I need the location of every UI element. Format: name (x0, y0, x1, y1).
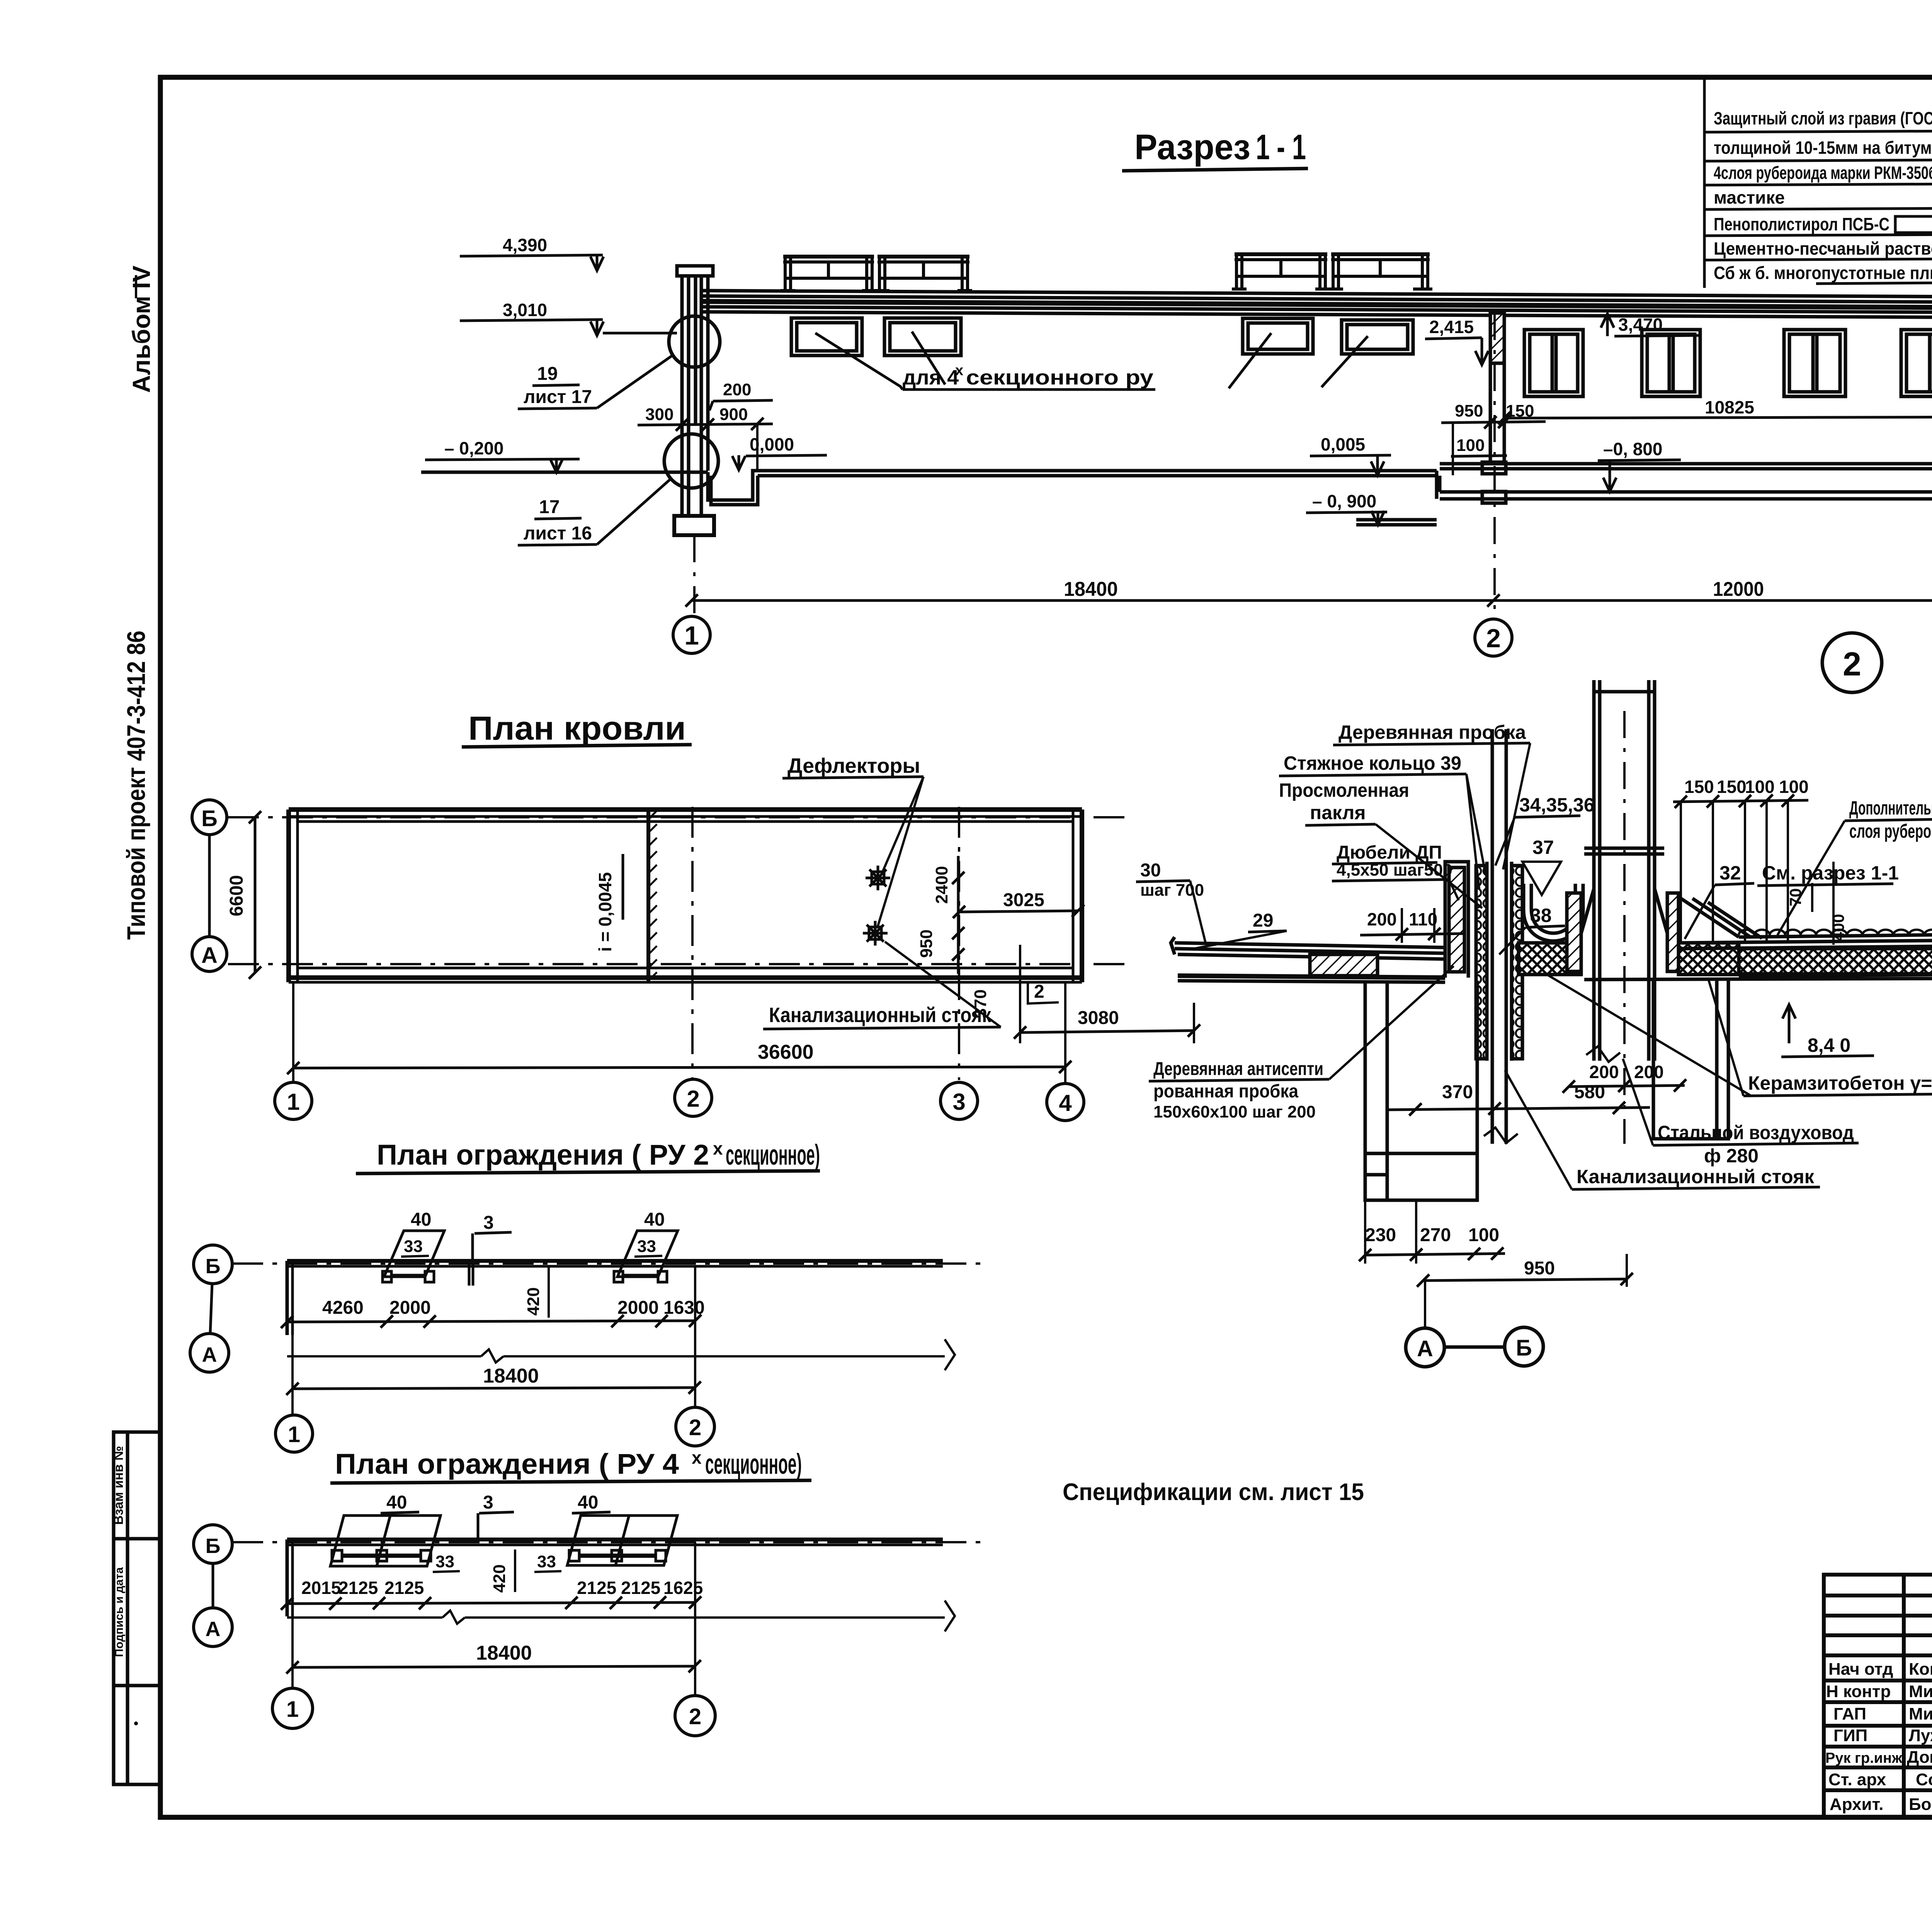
svg-text:8,4 0: 8,4 0 (1808, 1034, 1850, 1056)
svg-text:30: 30 (1140, 860, 1161, 881)
svg-text:Деревянная пробка: Деревянная пробка (1338, 721, 1526, 743)
svg-text:2: 2 (1843, 646, 1861, 683)
svg-text:х: х (692, 1448, 702, 1468)
svg-text:А: А (202, 1343, 217, 1366)
tall window 2 (1642, 330, 1700, 396)
svg-text:толщиной 10-15мм на битумной м: толщиной 10-15мм на битумной мастике (1714, 138, 1932, 158)
deflector stand 1 (781, 257, 877, 291)
right roof slab (1739, 934, 1932, 937)
pipe/duct break marks (1484, 1128, 1518, 1143)
step down to middle pit (1435, 471, 1439, 499)
svg-text:4: 4 (1059, 1090, 1072, 1116)
svg-text:4,5х50 шаг500: 4,5х50 шаг500 (1337, 861, 1452, 879)
main dimension line 18400/12000/6200 (692, 599, 1932, 602)
svg-text:1: 1 (288, 1422, 300, 1447)
svg-text:мастике: мастике (1714, 187, 1785, 208)
svg-text:150: 150 (1684, 777, 1714, 797)
tall window 4 (1901, 330, 1932, 396)
svg-text:Разрез: Разрез (1134, 128, 1250, 167)
svg-text:Дефлекторы: Дефлекторы (787, 754, 920, 777)
svg-text:секционное): секционное) (705, 1448, 802, 1480)
svg-text:19: 19 (537, 364, 558, 384)
svg-text:2125: 2125 (384, 1578, 424, 1598)
svg-text:420: 420 (524, 1287, 543, 1315)
continuous upper floor strip across middle and right bays (1440, 462, 1932, 466)
right pier below (1653, 980, 1728, 1139)
svg-text:Б: Б (206, 1255, 221, 1278)
svg-text:2125: 2125 (338, 1578, 378, 1598)
svg-text:– 0,200: – 0,200 (444, 438, 503, 458)
svg-text:Дополнительные 3: Дополнительные 3 (1849, 797, 1932, 819)
expansion seam with hatch (646, 810, 650, 982)
leaders to label (815, 332, 1368, 390)
wall detail callout circle lower (664, 434, 718, 488)
svg-text:–0, 800: –0, 800 (1603, 439, 1662, 459)
svg-text:17: 17 (539, 497, 560, 517)
svg-text:900: 900 (719, 405, 748, 424)
svg-text:Стяжное кольцо 39: Стяжное кольцо 39 (1284, 752, 1461, 774)
svg-text:2: 2 (1034, 981, 1044, 1002)
svg-text:План кровли: План кровли (468, 710, 686, 747)
svg-text:для 4: для 4 (903, 366, 959, 389)
svg-text:300: 300 (645, 405, 673, 424)
svg-text:Канализационный стояк: Канализационный стояк (1577, 1166, 1815, 1187)
duct collar cone (1578, 889, 1594, 943)
svg-text:1625: 1625 (663, 1578, 703, 1598)
svg-text:Борисова: Борисова (1909, 1795, 1932, 1814)
svg-text:4слоя рубероида марки РКМ-350б: 4слоя рубероида марки РКМ-350б (ГОСТ 109… (1714, 163, 1932, 183)
posts pair 1 (383, 1271, 667, 1282)
grid circle 2 (1475, 619, 1512, 656)
svg-text:А: А (1417, 1336, 1433, 1361)
svg-text:40: 40 (644, 1209, 665, 1230)
svg-text:18400: 18400 (483, 1365, 539, 1387)
axis-2 interior wall (1490, 313, 1504, 363)
svg-text:33: 33 (537, 1552, 556, 1571)
grid circle B (192, 800, 227, 835)
svg-text:2125: 2125 (621, 1578, 660, 1598)
ledge -0.900 (1356, 518, 1437, 522)
svg-text:0,005: 0,005 (1321, 434, 1365, 454)
svg-text:Доможиров: Доможиров (1907, 1748, 1932, 1767)
svg-text:2400: 2400 (932, 866, 951, 904)
svg-text:200: 200 (723, 380, 751, 399)
added roofing layers slope to duct (1681, 898, 1739, 937)
svg-text:4,390: 4,390 (503, 235, 547, 255)
svg-text:420: 420 (490, 1564, 509, 1592)
svg-text:3080: 3080 (1078, 1008, 1119, 1028)
svg-text:секционного ру: секционного ру (966, 366, 1153, 389)
svg-text:Луженкова: Луженкова (1909, 1726, 1932, 1745)
U-trap (1524, 884, 1583, 941)
fence axis dash line (232, 1262, 985, 1265)
svg-text:34,35,36: 34,35,36 (1519, 794, 1595, 816)
svg-text:Собко: Собко (1916, 1770, 1932, 1789)
svg-text:– 0, 900: – 0, 900 (1312, 491, 1376, 511)
sewer riser pipe (1491, 729, 1494, 1144)
oakum wrap strips (1476, 866, 1487, 1059)
grid axis dash lines (694, 247, 1932, 619)
svg-text:Защитный слой из гравия (ГОСТ: Защитный слой из гравия (ГОСТ 8268-82)фр… (1714, 108, 1932, 128)
svg-text:Просмоленная: Просмоленная (1279, 779, 1409, 801)
svg-text:36600: 36600 (758, 1041, 814, 1063)
svg-text:70: 70 (1786, 888, 1804, 907)
fence plan 1 grid circles (276, 1415, 313, 1452)
dim 6600 (254, 817, 257, 973)
svg-text:рованная пробка: рованная пробка (1153, 1081, 1298, 1102)
svg-text:2015: 2015 (301, 1578, 341, 1598)
svg-text:100: 100 (1745, 777, 1775, 797)
svg-text:40: 40 (411, 1209, 431, 1230)
spec text block top right (1704, 79, 1932, 288)
svg-text:лист 16: лист 16 (524, 523, 592, 544)
svg-text:33: 33 (404, 1237, 423, 1256)
svg-text:150: 150 (1717, 777, 1747, 797)
small window 2 (884, 318, 961, 356)
svg-text:Архит.: Архит. (1830, 1795, 1884, 1814)
grid circle 1 (673, 616, 710, 653)
posts group 1 (332, 1550, 666, 1561)
svg-text:950: 950 (917, 929, 936, 958)
svg-text:2: 2 (687, 1086, 699, 1112)
node 2 A-B circles (1406, 1328, 1444, 1367)
svg-text:200: 200 (1589, 1062, 1619, 1082)
ceiling lines under slabs (1178, 981, 1445, 982)
svg-text:ф 280: ф 280 (1704, 1145, 1759, 1167)
svg-text:32: 32 (1719, 862, 1741, 884)
svg-text:40: 40 (386, 1492, 407, 1513)
cross-hatch block left of duct (1519, 943, 1581, 975)
svg-text:Спецификации см. лист 15: Спецификации см. лист 15 (1063, 1479, 1364, 1505)
svg-text:Подпись и дата: Подпись и дата (113, 1567, 126, 1657)
svg-text:Деревянная антисепти: Деревянная антисепти (1153, 1059, 1323, 1079)
lower boundary line (287, 1616, 442, 1619)
roof plan outline (289, 810, 1082, 982)
svg-text:370: 370 (1442, 1082, 1473, 1102)
svg-text:ГАП: ГАП (1833, 1704, 1866, 1723)
svg-text:3,470: 3,470 (1618, 315, 1663, 335)
left hatched curb strip (1449, 867, 1464, 972)
svg-text:ГИП: ГИП (1833, 1726, 1867, 1745)
svg-text:33: 33 (637, 1237, 656, 1256)
tall window 3 (1784, 330, 1845, 396)
svg-text:12000: 12000 (1713, 578, 1764, 600)
tall window 1 (1524, 330, 1583, 396)
svg-text:3,010: 3,010 (503, 300, 547, 320)
svg-text:лист 17: лист 17 (524, 387, 592, 407)
deflector stand 3 (1232, 254, 1330, 289)
svg-text:18400: 18400 (476, 1642, 532, 1664)
fence plan 2 grid B/A circles (194, 1525, 232, 1563)
roof plan axis dash lines (228, 807, 1132, 1080)
svg-text:2: 2 (689, 1415, 701, 1440)
svg-text:А: А (206, 1618, 221, 1641)
svg-text:3: 3 (483, 1213, 494, 1233)
svg-text:i = 0,0045: i = 0,0045 (595, 872, 615, 952)
svg-text:29: 29 (1253, 910, 1273, 931)
svg-text:Взам инв №: Взам инв № (111, 1446, 126, 1525)
trench at left wall (708, 471, 755, 500)
svg-text:Керамзитобетон γ= 600кг/м: Керамзитобетон γ= 600кг/м (1748, 1072, 1932, 1094)
svg-text:Ст. арх: Ст. арх (1828, 1770, 1886, 1789)
svg-text:Б: Б (201, 806, 218, 831)
svg-text:х: х (955, 362, 963, 379)
svg-text:Пенополистирол ПСБ-С: Пенополистирол ПСБ-С (1714, 214, 1889, 234)
svg-text:План ограждения ( РУ 2: План ограждения ( РУ 2 (377, 1139, 709, 1171)
svg-text:Михайлова: Михайлова (1909, 1682, 1932, 1701)
fence plan 2 grid circles (272, 1688, 313, 1728)
svg-text:План ограждения ( РУ 4: План ограждения ( РУ 4 (335, 1448, 679, 1480)
svg-text:2: 2 (689, 1704, 701, 1729)
svg-text:Михайлов: Михайлов (1909, 1704, 1932, 1723)
middle bay pit floor -0.800 (1440, 490, 1932, 494)
svg-text:1: 1 (684, 621, 699, 650)
svg-text:950: 950 (1524, 1258, 1555, 1279)
steel air duct (1592, 680, 1596, 1061)
svg-text:950: 950 (1455, 401, 1483, 420)
svg-text:Б: Б (206, 1534, 221, 1558)
wall detail callout circle upper (669, 316, 720, 367)
svg-text:Сб ж б. многопустотные плиты: Сб ж б. многопустотные плиты (1714, 263, 1932, 283)
svg-text:400: 400 (1829, 914, 1847, 941)
svg-text:Б: Б (1516, 1335, 1532, 1361)
svg-text:1630: 1630 (663, 1298, 705, 1318)
left wall with parapet (677, 266, 713, 276)
svg-text:3: 3 (483, 1492, 493, 1513)
svg-text:150х60х100 шаг 200: 150х60х100 шаг 200 (1153, 1102, 1316, 1121)
svg-text:1: 1 (287, 1089, 299, 1115)
svg-text:Типовой проект 407-3-412 86: Типовой проект 407-3-412 86 (122, 631, 150, 940)
gravel arcs on right slab (1739, 930, 1932, 935)
roof slab band (700, 291, 1932, 298)
svg-text:2,415: 2,415 (1429, 317, 1474, 337)
svg-text:100: 100 (1468, 1225, 1499, 1245)
svg-text:Дюбели ДП: Дюбели ДП (1337, 842, 1442, 863)
svg-text:200: 200 (1634, 1062, 1664, 1082)
cross-hatch block right of duct (1679, 943, 1739, 975)
floor left bay 0.000 (755, 469, 1437, 473)
svg-text:1: 1 (286, 1697, 299, 1722)
left pier below (1365, 981, 1477, 1200)
deflector stand 4 (1328, 254, 1432, 289)
svg-text:33: 33 (435, 1552, 454, 1571)
svg-text:См. разрез 1-1: См. разрез 1-1 (1762, 862, 1899, 884)
svg-text:18400: 18400 (1064, 578, 1118, 600)
svg-text:1 - 1: 1 - 1 (1256, 128, 1306, 167)
svg-text:Рук гр.инж: Рук гр.инж (1825, 1750, 1903, 1766)
svg-text:А: А (201, 943, 218, 968)
svg-text:40: 40 (578, 1492, 598, 1513)
fence plan 2 wall band (287, 1539, 943, 1616)
hatched upstand right of duct (1667, 893, 1679, 971)
svg-text:3: 3 (952, 1089, 965, 1115)
svg-text:пакля: пакля (1310, 802, 1366, 823)
hatched upstand left of duct (1567, 893, 1581, 971)
svg-text:слоя рубероида: слоя рубероида (1849, 820, 1932, 842)
svg-text:3025: 3025 (1003, 890, 1044, 910)
svg-text:37: 37 (1532, 837, 1554, 858)
svg-text:270: 270 (1420, 1225, 1451, 1245)
small window 4 (1342, 320, 1413, 354)
lower boundary line (287, 1355, 481, 1357)
fence plan 1 wall band (287, 1261, 943, 1335)
svg-text:200: 200 (1367, 909, 1397, 929)
svg-text:38: 38 (1530, 905, 1552, 926)
svg-text:Н контр: Н контр (1826, 1682, 1891, 1701)
svg-text:4260: 4260 (322, 1298, 364, 1318)
deflector squares (863, 866, 890, 946)
svg-text:секционное): секционное) (726, 1139, 820, 1171)
svg-text:10825: 10825 (1705, 397, 1754, 417)
node callout circle 2 (1822, 633, 1882, 692)
svg-text:Альбом IV: Альбом IV (128, 265, 155, 393)
fence plan 1 grid B/A circles (194, 1245, 232, 1284)
svg-text:Канализационный стояк: Канализационный стояк (769, 1004, 992, 1027)
svg-text:100: 100 (1456, 436, 1485, 455)
svg-text:2: 2 (1486, 624, 1501, 653)
svg-text:Стальной воздуховод: Стальной воздуховод (1658, 1122, 1854, 1143)
svg-text:6600: 6600 (226, 875, 247, 917)
left wall footing (674, 516, 714, 535)
ground line left of building (421, 471, 708, 474)
left roof slab (1175, 943, 1445, 947)
svg-text:230: 230 (1365, 1225, 1396, 1245)
svg-text:2125: 2125 (577, 1578, 616, 1598)
grid circle A (192, 937, 227, 971)
svg-text:Ковалев: Ковалев (1909, 1660, 1932, 1679)
svg-text:Нач отд: Нач отд (1828, 1660, 1893, 1679)
deflector stand 2 (875, 257, 972, 291)
left margin boxes (114, 1432, 160, 1784)
small window 1 (791, 318, 862, 356)
svg-text:Цементно-песчаный раствор - 15: Цементно-песчаный раствор - 15 ÷ 105мм (1714, 238, 1932, 259)
svg-text:х: х (713, 1138, 723, 1158)
roof plan grid circles (275, 1082, 312, 1119)
svg-text:2000: 2000 (389, 1298, 431, 1318)
small window 3 (1243, 318, 1313, 354)
svg-text:0,000: 0,000 (750, 434, 794, 454)
svg-text:100: 100 (1779, 777, 1809, 797)
